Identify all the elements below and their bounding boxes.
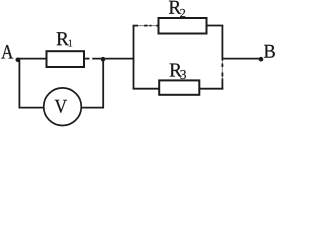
wire left bar to R3	[133, 88, 160, 90]
junction node after R1	[101, 57, 106, 62]
node B	[259, 57, 264, 62]
label A	[1, 45, 13, 58]
label B	[264, 45, 275, 58]
wire left bar to R2 (faint scanned line)	[133, 25, 159, 27]
wire right bar upper solid part	[221, 26, 223, 61]
wire right bar faint scanned middle part	[221, 61, 223, 79]
wire left bar to R2 dark segments	[133, 25, 138, 27]
resistor R1	[47, 51, 85, 67]
wire right bar lower solid part	[221, 79, 223, 90]
label R3	[170, 64, 186, 79]
label V of voltmeter	[55, 100, 67, 113]
resistor R2	[159, 18, 207, 34]
wire R2 to right bar	[207, 25, 224, 27]
wire R1 to junction	[84, 58, 90, 60]
label R1	[57, 32, 73, 46]
wire junction down to voltmeter right corner	[81, 59, 103, 107]
wire A to R1	[18, 58, 47, 60]
voltmeter V	[44, 88, 82, 126]
wire right bar middle dark dashes	[221, 64, 223, 68]
wire R3 to right bar	[199, 88, 223, 90]
wire A down to voltmeter left corner	[19, 60, 43, 108]
wire junction segment continuing to left bar	[92, 58, 134, 60]
wire right bar to node B	[222, 58, 261, 60]
label R2	[169, 1, 185, 17]
resistor R3	[159, 80, 199, 94]
node A	[15, 58, 20, 63]
wire left bar of parallel section	[133, 26, 135, 89]
